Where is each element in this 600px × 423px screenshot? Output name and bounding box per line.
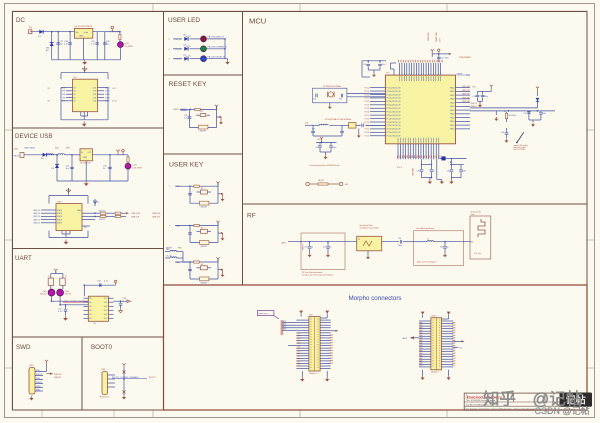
capacitor C36 [359,124,364,128]
svg-text:0.1u: 0.1u [184,118,188,120]
svg-text:VBUS: VBUS [57,216,63,218]
uart IC pin names [89,298,108,320]
Morpho connectors label [349,295,402,302]
IC U5 pin names [74,87,98,102]
ground right top [478,103,482,107]
ground key B2 [218,193,224,202]
MCU bottom pin names [398,138,439,143]
label row LD_G [168,49,181,51]
svg-text:BOOT0_CONFIG_SIGNALS: BOOT0_CONFIG_SIGNALS [112,376,139,379]
capacitor C31 [378,61,385,70]
svg-text:C1+: C1+ [89,306,92,308]
MCU left pin names [387,87,401,137]
capacitor C33 [339,94,343,101]
jack labels [40,291,72,296]
shield stub [82,226,90,229]
ground vdd cluster [323,155,327,159]
svg-text:C34: C34 [305,123,308,125]
svg-text:BOOT0: BOOT0 [91,344,113,351]
wire regulator ground stem [83,38,85,60]
regulator U4 LD1117S50TR [74,26,92,38]
ground reset [217,116,223,125]
power flag key B3 [216,221,219,226]
wire MCU left pins [370,88,385,136]
svg-text:Conn: Conn [471,214,475,216]
svg-text:0.1u: 0.1u [58,311,62,313]
svg-text:10u: 10u [66,168,69,170]
svg-text:PC14: PC14 [365,91,370,93]
capacitor key B4 [188,269,192,270]
net arrow mcu top [445,53,452,55]
svg-text:PA12: PA12 [450,109,454,112]
ground uart right [119,309,123,313]
diode D4 tvs [52,155,60,181]
wire usb top loop [49,192,88,204]
ground rf 3 [443,253,447,257]
MCU left pin labels [365,87,370,137]
diode D5 right [536,91,539,108]
wire to jacks [51,286,63,290]
capacitor C46 [501,128,508,138]
wire CN10 long left [403,337,420,340]
svg-text:SWCLK: SWCLK [36,374,43,376]
svg-text:232-TX: 232-TX [65,294,72,296]
wire right rail lower block [104,88,108,101]
svg-text:USB_5V: USB_5V [33,216,41,218]
label boot0 conn [100,396,109,399]
jumper SB1 [306,180,348,186]
wire right long2 [470,110,555,112]
wire CN7 right out [331,330,339,332]
svg-text:PA12: PA12 [450,128,454,131]
svg-text:FB3: FB3 [178,248,181,250]
svg-text:PC14-OSC32_IN: PC14-OSC32_IN [387,136,401,138]
svg-text:U.FL conn: U.FL conn [474,253,481,255]
wire CN7 left pins [296,320,309,368]
svg-text:Power input: Power input [258,312,267,315]
wire usb main rail [24,154,118,156]
MCU section box [243,12,588,205]
label VBAT vertical [428,32,430,41]
svg-text:0.1u: 0.1u [91,44,95,46]
wire CN7 long left [282,321,296,331]
svg-text:PC14: PC14 [365,108,370,110]
svg-text:PA12: PA12 [450,113,454,116]
ferrite below [439,156,450,160]
inductor lse [319,124,328,125]
svg-text:B4: B4 [201,264,203,266]
UART section box [13,249,164,338]
wire top-left caps bottom [362,61,380,77]
capacitor C47 [524,111,531,120]
power flag vdd cluster [317,137,323,141]
ground key B4 [218,269,224,278]
USER KEY section box [164,154,243,285]
svg-text:CN10: CN10 [431,316,436,318]
wire CN10 right out2 [453,347,461,349]
svg-text:C1+: C1+ [89,314,92,316]
transistor Q2 [60,276,67,286]
wire left rail lower block [61,88,66,101]
svg-text:SWD: SWD [16,344,31,351]
capacitor C4 [103,32,111,60]
ground crystal [328,103,332,109]
label row LD_R [168,39,181,41]
crystal X2 [349,123,356,129]
svg-text:VBUS: VBUS [57,213,63,215]
ground lower block [82,122,87,127]
capacitor C22 [103,155,112,181]
power flag 5V [105,26,120,32]
node junction dots DC rail [51,31,121,33]
USER KEY title [169,162,204,169]
capacitor C2 [64,32,72,60]
svg-text:SW-PB: SW-PB [201,246,208,248]
ground boot0 [122,395,126,400]
svg-text:USER KEY: USER KEY [169,162,204,169]
wire rf main3 [414,241,470,243]
svg-text:L1: L1 [427,239,429,241]
svg-text:LD2: LD2 [183,55,186,57]
svg-text:USB_5V: USB_5V [33,219,41,221]
svg-text:GND: GND [83,157,88,159]
diode D2 [46,32,54,60]
wire key B4 loop [190,262,218,279]
wire LED row LD_R mid [190,38,201,40]
svg-text:C30: C30 [363,64,366,66]
svg-text:CSDN @记帖: CSDN @记帖 [535,405,590,416]
capacitor C45 [481,92,488,102]
label X2 crystal [325,118,352,121]
power flag swd [43,360,48,372]
svg-text:RESET KEY: RESET KEY [169,81,207,88]
svg-text:SW-PB: SW-PB [200,131,207,133]
svg-text:RF Pass Matching Network: RF Pass Matching Network [302,271,323,274]
ground CN10 b [446,376,450,381]
watermark csdn text [535,405,590,416]
net label BOOT0_CONFIG [112,376,155,379]
svg-text:D13: D13 [459,347,462,349]
label VBUS red right [112,88,118,103]
swd pin labels [36,370,43,392]
svg-text:Boot0-1x3: Boot0-1x3 [100,396,109,399]
svg-text:VDDUSB: VDDUSB [413,167,415,176]
svg-text:PC14: PC14 [365,136,370,138]
capacitor C32 [313,94,317,101]
title block row3 [466,403,494,406]
node usb rail dots [56,154,111,156]
svg-text:R34 22: R34 22 [99,219,105,221]
capacitor C37 [316,142,322,152]
svg-text:USB_5V: USB_5V [33,210,41,212]
power flag mcu top1 [431,49,434,57]
svg-text:1u: 1u [103,168,105,170]
watermark zhihu text [483,389,582,408]
svg-text:C50: C50 [305,247,308,249]
svg-text:USER LED: USER LED [168,17,200,24]
svg-text:CN5: CN5 [29,365,34,367]
CN10 left pin numbers [419,322,422,366]
inductor FB3 [165,248,183,252]
svg-text:T1: T1 [48,276,50,278]
svg-text:AJ: AJ [46,49,48,52]
wire CN7 bottom stems [302,371,327,377]
svg-text:USB_DM: USB_DM [131,213,140,215]
svg-text:Morpho-1: Morpho-1 [309,372,316,375]
label key B2 [169,185,181,188]
svg-text:USB_DP: USB_DP [152,216,161,218]
label ANT [282,241,287,244]
MCU bottom pin numbers [397,155,441,158]
jack pin CN3 [48,289,55,296]
svg-text:U6 LDK120: U6 LDK120 [80,163,91,165]
svg-text:PC14: PC14 [365,132,370,134]
wire U6 gnd stem [85,161,87,181]
svg-text:USB_VBUS: USB_VBUS [24,148,35,150]
svg-text:PC14-OSC32_IN: PC14-OSC32_IN [387,111,401,113]
svg-text:Cross Matching Network: Cross Matching Network [416,227,435,230]
CN7 left pin numbers [297,333,301,367]
svg-text:PA12: PA12 [450,116,454,119]
net label PB_LED_GREEN [208,47,228,49]
label VDD vertical [435,32,442,42]
wire uart cap branch [65,304,67,309]
RF title [247,213,256,220]
MCU right pin labels [462,86,470,103]
svg-text:LD4: LD4 [183,35,186,37]
wire key B3 loop [190,226,218,243]
svg-text:RF1: RF1 [471,242,474,244]
IC U7 level shifter [88,296,108,325]
wire CN7 long left2 [288,345,296,347]
IC U5 left net labels [62,87,66,102]
MCU title [249,17,266,26]
wire MCU bottom pins [398,144,439,159]
capacitor C24 [97,281,108,288]
wire right branch down [496,111,505,115]
capacitor C41 [430,165,435,178]
LED LD_R [201,36,207,42]
IC U6 reg [80,149,92,165]
capacitor C42 [447,165,454,178]
capacitor C52 series [398,238,402,247]
svg-text:B2: B2 [201,188,203,190]
wire CN10 left pins [419,321,431,367]
svg-text:CN2: CN2 [57,201,62,203]
wire rf main1 [288,241,357,243]
IC U5 right net labels [105,87,111,102]
svg-text:232-RX: 232-RX [40,294,47,296]
ground CN10 a [420,376,424,381]
svg-text:USB_DM: USB_DM [152,213,161,215]
wire boot0 pins [108,375,116,387]
wire below right rail [450,158,467,164]
capacitor C1 [56,32,64,60]
UART title [15,255,32,262]
capacitor C38 [329,142,336,152]
wire top rail lower block [61,73,108,80]
svg-text:B1: B1 [201,111,203,113]
logo dark box [560,393,593,407]
svg-text:PA12: PA12 [450,98,454,101]
svg-text:Jumper JP5 used for: Jumper JP5 used for [514,145,529,147]
capacitor C26 reset [184,115,191,120]
svg-text:PC14-OSC32_IN: PC14-OSC32_IN [387,122,401,124]
svg-text:C1+: C1+ [89,298,92,300]
svg-text:PB_LED_GREEN_B: PB_LED_GREEN_B [208,47,228,49]
wire key B2 main [175,185,218,187]
svg-text:B3: B3 [201,228,203,230]
BOOT0 section box [82,337,164,410]
wire uart out [114,300,128,302]
wire below caps bottom2 [452,177,462,179]
caption rf matching2 [417,261,436,264]
power flag CN7 b [320,311,329,318]
ground usb bus [84,181,89,186]
svg-text:DC: DC [16,17,25,24]
switch B2 bottom box [200,201,209,209]
svg-text:GND: GND [77,210,82,212]
MCU top pin numbers [398,60,443,63]
caption rf matching1 [302,271,333,277]
resistor key B2 [194,185,199,187]
crystal X1 [327,92,334,98]
ground below 2 [449,178,453,184]
svg-text:SWCLK: SWCLK [54,374,62,376]
switch B4 [197,264,212,270]
resistor R31 [119,32,121,42]
svg-text:PC14: PC14 [365,105,370,107]
wire crystal loop [313,88,347,103]
title block row2 [466,399,495,402]
caption agency note [309,164,339,167]
power ground LED [225,59,230,65]
BOOT0 title [91,344,113,351]
svg-text:PC14-OSC32_IN: PC14-OSC32_IN [387,129,401,131]
wire right caps bottom2 [529,120,541,122]
svg-text:PC14-OSC32_IN: PC14-OSC32_IN [387,108,401,110]
ground rf 2 [326,253,330,257]
svg-text:VDDUSB: VDDUSB [428,32,430,41]
power flag key B2 [216,182,219,187]
ground filter [366,251,370,259]
label CN10 [431,316,439,374]
svg-text:USB_DM: USB_DM [462,97,470,99]
wire CN10 bottom stems [423,370,449,376]
svg-text:USB_DM: USB_DM [462,90,470,92]
svg-text:UART: UART [15,255,32,262]
label U5 designator [387,57,472,75]
svg-text:0.1u: 0.1u [64,44,68,46]
svg-text:USB_DM: USB_DM [462,86,470,88]
power flag CN10 b [442,312,451,319]
power flag boot0 [122,363,125,368]
svg-text:PC14-OSC32_IN: PC14-OSC32_IN [387,118,401,120]
svg-text:VBUS: VBUS [57,210,63,212]
wire LED row LD_G left [173,48,182,50]
svg-text:CN6: CN6 [101,369,106,371]
inductor FB ferrite [47,154,65,155]
svg-text:Vin: Vin [76,32,79,34]
zener ESD [93,199,100,206]
svg-text:SW-PB: SW-PB [201,283,208,285]
wire key B3 main [175,225,218,227]
capacitor C40 [417,165,424,178]
svg-text:0.1u: 0.1u [104,281,108,283]
LED LD_G [201,46,207,52]
IC U5 power switch [73,77,98,112]
svg-text:SB1 0R: SB1 0R [318,180,325,182]
svg-text:C40: C40 [417,171,420,173]
resistor key B3 [194,224,199,226]
svg-text:CK_IN: CK_IN [166,256,172,258]
svg-text:R50 100k: R50 100k [509,115,516,117]
svg-text:100n: 100n [333,147,337,149]
resistor R35 [115,212,121,217]
net label UART_CONFIG [63,300,89,303]
svg-text:NRST: NRST [173,109,179,111]
connector J1 UFL [470,216,491,259]
box rf matching2 [414,231,464,266]
power flag U5V [116,150,128,155]
ground right mid [494,117,498,121]
DEVICE USB title [15,133,52,140]
SWD title [16,344,31,351]
svg-text:C44: C44 [473,96,476,98]
jumper diagonal boot [516,132,524,143]
label vddusb vertical [413,167,415,176]
DEVICE USB section box [13,128,164,249]
label key row3 extra [166,248,181,250]
ground right mid2 [504,139,508,143]
connector CN6 boot0 [101,369,108,395]
svg-text:RF: RF [247,213,256,220]
capacitor C21 [66,155,74,181]
wire usb right pins [77,210,95,220]
svg-text:C37: C37 [316,147,319,149]
svg-text:VBUS: VBUS [57,223,63,225]
svg-text:X2 NX3215SA-32.768K-EXS00A: X2 NX3215SA-32.768K-EXS00A [325,118,352,121]
svg-text:SW-PB: SW-PB [201,207,208,209]
USER LED title [168,17,200,24]
svg-text:PC14-OSC32_IN: PC14-OSC32_IN [387,87,401,89]
svg-text:C51: C51 [323,247,326,249]
svg-text:Morpho-2: Morpho-2 [431,371,438,374]
svg-text:1u: 1u [433,171,435,173]
capacitor C50 [305,242,313,253]
ground uart cap [63,316,68,321]
switch B1 bottom box [199,125,208,132]
power flag CN10 a [421,312,425,318]
svg-text:USB_5V: USB_5V [33,213,41,215]
power flag uart top [54,269,57,274]
label X1 crystal [323,86,341,88]
wire CN7 right pins [320,320,331,368]
diode D3 usb [41,153,46,160]
svg-text:PC14-OSC32_IN: PC14-OSC32_IN [387,101,401,103]
flag violet callout [257,311,278,319]
switch B3 bottom box [200,241,209,249]
svg-text:10u: 10u [60,44,63,46]
wire IC U5 pin stubs [66,88,104,101]
capacitor C44 [473,92,480,102]
svg-text:CN7: CN7 [309,315,313,317]
label row LD_B [168,59,181,61]
wire vdd caps rail [316,142,337,144]
svg-text:PB_LED_BLUE_B: PB_LED_BLUE_B [208,57,226,59]
label usb top [24,148,71,150]
svg-text:C47: C47 [524,113,527,115]
